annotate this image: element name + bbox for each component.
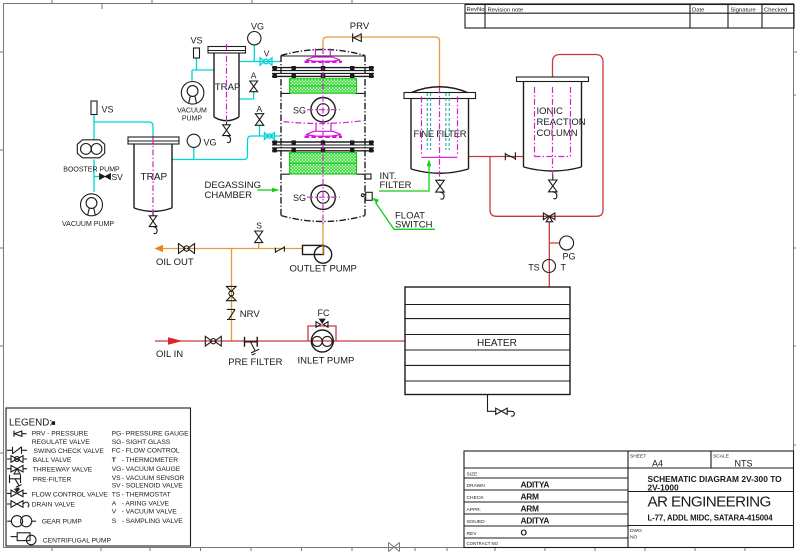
wire: orange PRV line chamber top to fine filter xyxy=(323,37,440,87)
svg-text:- THERMOMETER: - THERMOMETER xyxy=(122,457,179,464)
title block xyxy=(464,451,794,548)
magenta spray nozzle mid xyxy=(305,123,343,137)
wire: red fine filter to ionic column xyxy=(469,156,524,158)
drain valve under trap 2 xyxy=(223,122,231,143)
svg-text:GEAR PUMP: GEAR PUMP xyxy=(42,519,83,526)
legend symbol: PRV pressure regulate valve xyxy=(14,430,90,446)
non return valve NRV xyxy=(227,309,261,320)
svg-text:S: S xyxy=(256,221,262,231)
vacuum pump 2 (upper) xyxy=(177,82,207,123)
svg-text:CONTRACT NO: CONTRACT NO xyxy=(467,541,499,546)
wire: red inlet pump bypass loop xyxy=(308,326,336,341)
svg-text:Signature: Signature xyxy=(731,7,757,13)
wire: upper A valve stem to trap xyxy=(239,92,254,99)
legend symbol: flow control valve xyxy=(7,489,108,499)
svg-text:- VACUUM SENSOR: - VACUUM SENSOR xyxy=(122,475,185,482)
pressure gauge PG xyxy=(560,236,576,262)
wire: vacuum line VS2 to upper trap xyxy=(192,58,214,81)
svg-text:T: T xyxy=(561,262,567,272)
wire: red oil in line to heater xyxy=(155,340,405,342)
vacuum valve V xyxy=(260,49,272,66)
wire: upper VG stem xyxy=(253,45,255,62)
ionic reaction column vessel xyxy=(517,77,589,171)
svg-text:SG: SG xyxy=(112,439,122,446)
svg-text:O: O xyxy=(521,527,528,537)
svg-text:VACUUM PUMP: VACUUM PUMP xyxy=(62,221,114,228)
legend symbol: ball valve xyxy=(7,456,72,464)
trap 1 (lower) xyxy=(128,137,179,211)
wire: red loop around ionic column xyxy=(490,55,603,217)
svg-text:TS: TS xyxy=(112,492,121,499)
wire: orange down leg to oil in xyxy=(231,249,233,342)
svg-text:OIL OUT: OIL OUT xyxy=(156,257,194,268)
svg-text:Revision note: Revision note xyxy=(488,7,524,13)
svg-text:FC: FC xyxy=(318,308,330,318)
svg-text:REV: REV xyxy=(467,531,478,537)
magenta chamber centerline xyxy=(322,48,324,226)
magenta centerline trap 2 xyxy=(226,44,228,122)
flow control valve FC xyxy=(316,308,330,327)
drain valve under ionic column xyxy=(549,175,558,199)
chamber wall fitting xyxy=(365,174,371,179)
vacuum gauge VG2 xyxy=(248,22,264,45)
legend symbol: gear pump xyxy=(7,516,82,527)
chamber sight glass SG2 xyxy=(293,185,335,209)
svg-text:RevNo: RevNo xyxy=(467,7,486,13)
wire: lower trap to chamber with riser xyxy=(172,125,281,160)
label int filter with leader xyxy=(379,159,431,191)
svg-text:REACTION: REACTION xyxy=(537,117,586,128)
wire: orange oil out line xyxy=(163,248,303,250)
svg-text:PRV: PRV xyxy=(350,21,370,32)
svg-text:HEATER: HEATER xyxy=(477,338,517,349)
outlet pump xyxy=(290,245,357,274)
heater xyxy=(405,287,570,395)
wire: orange chamber bottom to outlet pump xyxy=(322,222,324,255)
svg-text:VG: VG xyxy=(112,466,122,473)
svg-text:AR ENGINEERING: AR ENGINEERING xyxy=(648,494,771,511)
svg-text:TRAP: TRAP xyxy=(141,172,168,183)
svg-text:VS: VS xyxy=(191,36,203,46)
wire: lower VG stem xyxy=(193,147,195,159)
svg-text:- PRESSURE GAUGE: - PRESSURE GAUGE xyxy=(122,431,189,438)
svg-text:- SAMPLING VALVE: - SAMPLING VALVE xyxy=(122,518,184,525)
svg-text:FILTER: FILTER xyxy=(380,180,412,191)
svg-text:BALL VALVE: BALL VALVE xyxy=(33,457,72,464)
svg-text:SHEET: SHEET xyxy=(630,454,646,460)
svg-text:LEGEND:: LEGEND: xyxy=(9,418,52,429)
svg-text:IONIC: IONIC xyxy=(537,106,564,117)
solenoid valve SV xyxy=(100,172,124,182)
legend symbol: drain valve xyxy=(7,501,75,509)
magenta liquid level line xyxy=(284,121,364,124)
legend box xyxy=(6,408,191,546)
legend abbreviations column xyxy=(112,431,189,526)
chamber flange band 1 xyxy=(272,66,374,78)
svg-text:COLUMN: COLUMN xyxy=(537,128,578,139)
oil in arrow xyxy=(168,337,183,345)
legend symbol: pre-filter xyxy=(10,475,72,489)
svg-text:- VACUUM VALVE: - VACUUM VALVE xyxy=(122,509,178,516)
svg-text:INLET PUMP: INLET PUMP xyxy=(298,355,355,366)
svg-text:VS: VS xyxy=(102,105,114,115)
vacuum sensor VS2 xyxy=(191,36,203,59)
svg-text:- SIGHT GLASS: - SIGHT GLASS xyxy=(122,439,171,446)
aring valve A1 xyxy=(255,104,263,125)
svg-text:VS: VS xyxy=(112,475,121,482)
drain valve under fine filter xyxy=(436,180,445,199)
svg-text:OUTLET PUMP: OUTLET PUMP xyxy=(290,263,357,274)
vacuum gauge VG1 xyxy=(187,134,216,147)
svg-text:NRV: NRV xyxy=(240,309,261,320)
drain valve under heater xyxy=(488,395,515,417)
threeway valve on red loop xyxy=(543,213,555,222)
inlet pump xyxy=(298,330,355,366)
magenta SG2 crosshair xyxy=(307,196,340,198)
svg-text:DWG: DWG xyxy=(630,528,642,534)
svg-text:PG: PG xyxy=(112,431,122,438)
thermostat thermometer TS T xyxy=(528,260,566,273)
oil out label xyxy=(156,257,194,268)
svg-text:SV: SV xyxy=(112,483,121,490)
sampling valve S xyxy=(255,221,263,243)
fine filter internals teal tubes xyxy=(427,93,449,150)
svg-text:PUMP: PUMP xyxy=(182,115,203,122)
svg-text:Checked: Checked xyxy=(764,7,787,13)
svg-text:V: V xyxy=(264,49,270,59)
oil out arrow xyxy=(155,245,164,253)
svg-text:A: A xyxy=(251,70,257,80)
svg-text:VG: VG xyxy=(204,137,217,147)
svg-text:SWING CHECK VALVE: SWING CHECK VALVE xyxy=(34,448,105,455)
magenta centerline trap 1 xyxy=(152,138,154,213)
svg-text:PG: PG xyxy=(563,252,576,262)
svg-text:TRAP: TRAP xyxy=(215,82,241,93)
svg-text:2V-1000: 2V-1000 xyxy=(648,483,680,493)
svg-text:DRAWN: DRAWN xyxy=(467,483,486,489)
wire: VS1 to booster pump and to lower trap xyxy=(94,115,153,140)
svg-text:SV: SV xyxy=(112,172,124,182)
trap 2 (upper) xyxy=(208,47,246,121)
svg-text:V: V xyxy=(112,509,117,516)
svg-text:Date: Date xyxy=(692,7,705,13)
svg-text:ARM: ARM xyxy=(521,503,539,513)
svg-text:REGULATE VALVE: REGULATE VALVE xyxy=(32,439,91,446)
legend symbol: threeway valve xyxy=(7,465,93,474)
svg-text:A: A xyxy=(112,501,117,508)
svg-text:CHECK: CHECK xyxy=(467,495,485,501)
wire: booster pump to vacuum pump xyxy=(94,160,100,193)
vertical valve on down leg xyxy=(227,286,237,300)
chamber flange band 2 xyxy=(272,140,374,152)
svg-text:- THERMOSTAT: - THERMOSTAT xyxy=(122,492,171,499)
svg-text:A: A xyxy=(257,104,263,114)
ionic column internals magenta xyxy=(535,87,571,175)
chamber filter element 1 xyxy=(290,79,357,94)
svg-text:ISSUED: ISSUED xyxy=(467,519,486,525)
revision table xyxy=(465,5,794,29)
svg-text:VG: VG xyxy=(251,22,264,32)
svg-text:PRE FILTER: PRE FILTER xyxy=(228,357,282,368)
svg-text:ADITYA: ADITYA xyxy=(521,479,550,489)
svg-text:CHAMBER: CHAMBER xyxy=(205,190,253,201)
svg-text:THREEWAY VALVE: THREEWAY VALVE xyxy=(33,467,93,474)
chamber filter element 2 xyxy=(290,153,357,174)
degassing chamber shell xyxy=(281,50,365,222)
fine filter vessel xyxy=(404,87,476,174)
magenta SG1 crosshair xyxy=(307,109,340,111)
svg-text:NO: NO xyxy=(630,534,638,540)
wire: orange S valve stem xyxy=(258,243,260,249)
oil in label xyxy=(156,349,183,360)
svg-text:ADITYA: ADITYA xyxy=(521,515,550,525)
svg-text:PRV - PRESSURE: PRV - PRESSURE xyxy=(32,430,89,437)
magenta spray nozzle top xyxy=(305,49,343,62)
svg-text:OIL IN: OIL IN xyxy=(156,349,183,360)
svg-text:- VACUUM GAUGE: - VACUUM GAUGE xyxy=(122,466,181,473)
vacuum pump 1 (lower) xyxy=(62,194,114,228)
legend symbol: swing check valve xyxy=(7,447,104,455)
svg-text:NTS: NTS xyxy=(735,458,753,468)
svg-text:SCALE: SCALE xyxy=(713,454,730,460)
svg-text:SG: SG xyxy=(293,193,306,203)
pre filter symbol xyxy=(228,337,282,368)
svg-text:PRE-FILTER: PRE-FILTER xyxy=(33,477,72,484)
fine filter internals magenta xyxy=(422,88,458,184)
vacuum sensor VS1 xyxy=(91,101,114,115)
svg-text:APPR.: APPR. xyxy=(467,507,482,513)
svg-text:VACUUM: VACUUM xyxy=(177,107,207,114)
chamber sight glass SG1 xyxy=(293,98,335,122)
booster pump xyxy=(63,140,120,174)
svg-text:ARM: ARM xyxy=(521,491,539,501)
aring valve A2 xyxy=(250,70,258,91)
svg-text:FC: FC xyxy=(112,448,121,455)
svg-text:SIZE: SIZE xyxy=(467,472,479,478)
label float switch with leader xyxy=(372,198,435,231)
svg-text:DRAIN VALVE: DRAIN VALVE xyxy=(32,501,76,508)
svg-text:L-77, ADDL MIDC, SATARA-415004: L-77, ADDL MIDC, SATARA-415004 xyxy=(648,514,774,523)
wire: red threeway to heater with gauges xyxy=(549,222,559,287)
svg-text:S: S xyxy=(112,518,117,525)
svg-text:- ARING VALVE: - ARING VALVE xyxy=(122,501,170,508)
label degassing chamber with arrow xyxy=(205,180,280,201)
ball valve on oil out xyxy=(179,244,195,254)
svg-text:- SOLENOID VALVE: - SOLENOID VALVE xyxy=(122,483,184,490)
svg-text:SG: SG xyxy=(293,106,306,116)
pressure regulate valve PRV xyxy=(350,21,370,42)
drain valve under trap 1 xyxy=(149,213,157,234)
svg-text:CENTRIFUGAL PUMP: CENTRIFUGAL PUMP xyxy=(43,538,112,545)
legend symbol: centrifugal pump xyxy=(11,533,112,545)
cyan ball valve at chamber left xyxy=(264,133,274,140)
swing check on oil out xyxy=(275,246,284,253)
svg-text:TS: TS xyxy=(528,262,540,272)
swing check valve on red line xyxy=(505,152,515,160)
svg-text:FLOW CONTROL VALVE: FLOW CONTROL VALVE xyxy=(32,491,109,498)
ball valve on oil in xyxy=(205,336,221,346)
chamber filter tray lines xyxy=(281,93,365,174)
wire: upper trap to V valve to chamber xyxy=(239,61,281,63)
float switch fitting xyxy=(361,192,372,200)
svg-text:A4: A4 xyxy=(652,458,663,468)
svg-text:- FLOW CONTROL: - FLOW CONTROL xyxy=(122,448,180,455)
